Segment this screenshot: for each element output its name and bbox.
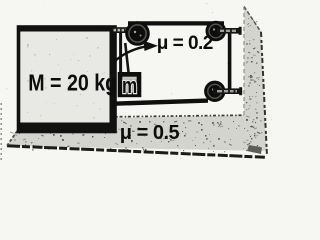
string from axle down to block m [119, 33, 122, 73]
pulley P3 axle [213, 87, 242, 95]
block m [120, 74, 139, 95]
wall top diagonal edge [244, 7, 261, 33]
ground and wall gray L-shape [7, 6, 267, 151]
right string [228, 30, 232, 90]
string from pulley P1 rim down to block m [125, 43, 128, 73]
pulley P2 [206, 21, 227, 42]
wall left edge [243, 7, 245, 115]
svg-text:m: m [122, 74, 137, 99]
bottom string [111, 101, 209, 104]
top string [128, 21, 224, 25]
wall texture [246, 18, 260, 148]
dark corner smudge bottom-right [247, 145, 262, 154]
block M (20 kg) [19, 27, 116, 132]
arrow from m-M contact surface to mu = 0.2 label [112, 41, 159, 64]
svg-text:μ = 0.2: μ = 0.2 [157, 33, 213, 54]
ground top edge [111, 115, 244, 117]
pulley P2 axle [217, 27, 242, 35]
ground bottom edge [7, 146, 266, 158]
block m label [122, 74, 137, 99]
pulley P3 [204, 81, 225, 102]
ground texture [10, 120, 262, 152]
svg-text:M = 20 kg: M = 20 kg [28, 69, 117, 95]
ground left diagonal edge [7, 120, 25, 146]
wall right edge [261, 32, 267, 156]
pulley P1 [125, 21, 150, 46]
svg-text:μ = 0.5: μ = 0.5 [120, 122, 180, 144]
left page dotted edge [0, 103, 2, 160]
pulley P1 axle [112, 27, 138, 33]
